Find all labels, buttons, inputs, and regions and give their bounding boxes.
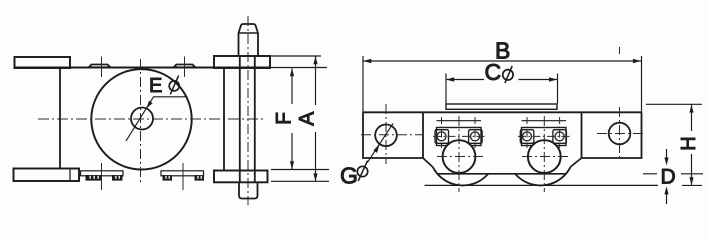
svg-text:E: E [149,75,162,97]
top plate (Cφ disc edge-on) [446,104,557,109]
svg-text:H: H [678,136,700,150]
bolt 2b circle [555,132,564,141]
wheel 2 vertical centerline [543,116,545,192]
wheel 1 flange arc [433,167,489,186]
bolt 2a square [520,130,534,144]
dimension A arrows [313,56,317,64]
pin head seam [239,32,259,34]
svg-text:C: C [485,59,502,85]
wheel 1 vertical centerline [458,116,460,192]
wheel bracket 2 [522,128,567,146]
wheel 1 circle [443,140,476,173]
left lug hole horizontal centerline [361,134,423,136]
wheel circle (side view) [91,69,191,169]
left lug chamfer [423,158,433,167]
bolt 2b square [553,130,567,144]
dimension Cφ text [485,59,514,85]
pin shank sides [239,33,259,56]
wheel vertical centerline [140,59,142,184]
dimension D upper arrow [666,149,668,159]
top tab right centerline [184,57,186,78]
B extension left [362,56,364,112]
dimension Cφ line [446,79,557,81]
pin bottom end [239,183,258,199]
dimension H line [691,105,693,186]
main horizontal centerline [38,118,263,120]
top tab left (hatched block) [87,64,112,68]
B extension right [641,56,643,112]
frame left edge [59,68,61,169]
bolt 2 centerlines [527,117,560,148]
pin centerline [247,16,249,205]
wheel 2 circle [528,140,561,173]
top rail line [15,67,271,69]
Cφ extension left [445,74,447,104]
frame right edge [223,68,225,171]
top tab left centerline [101,57,103,78]
dimension A line [315,56,317,181]
bottom bar right [161,171,204,176]
bolt 1a circle [437,132,446,141]
Cφ extension right [557,74,559,104]
bolt 1a square [435,130,449,144]
bottom bar left [81,171,124,176]
wheel bracket 1 [437,128,482,146]
Eφ label [149,75,179,97]
wheel 2 flange arc [515,167,571,186]
D extension segments [643,173,703,175]
bottom-left plate inner edge [69,169,71,182]
F extension bottom [271,169,329,171]
top rail extension (thin, to dims) [270,67,327,69]
left lug hole vertical centerline [385,104,387,164]
Gφ label [340,161,368,189]
bottom-left plate [14,169,80,182]
Gφ leader arrowhead [373,144,379,153]
right lug hole vertical centerline [619,47,621,158]
H extension top [646,103,702,105]
dimension B arrows [363,59,371,63]
svg-text:A: A [296,112,319,126]
bolt 1 centerlines [442,117,476,148]
dimension F line [291,68,293,169]
top-left plate [15,57,71,68]
bolt 2a circle [523,132,532,141]
bottom bar right hatched blocks [163,175,173,181]
D lower extension right segment [682,184,702,186]
wheel 2 horizontal centerline [522,156,568,158]
bracket 2 tab line [522,120,567,122]
left lug hole Gφ [375,125,397,147]
body top line [363,111,642,113]
bottom bar left hatched blocks [86,175,103,181]
pin shank [240,56,255,183]
bracket 1 tab line [437,120,482,122]
left lug outline [363,112,423,158]
svg-text:D: D [661,166,676,189]
bore circle Eφ [131,108,153,130]
bolt 1b square [469,130,483,144]
dimension D lower arrow [666,193,668,204]
right lug outline [582,112,642,158]
right lug hole [609,123,631,145]
bolt 1b circle [471,132,480,141]
Eφ leader arrowhead [146,101,152,109]
top-right plate [214,56,270,68]
A extension top [270,55,321,57]
bolt 1 horizontal centerline [433,135,485,137]
wheel 1 horizontal centerline [437,156,483,158]
svg-text:G: G [340,163,358,189]
A extension bottom [271,180,329,182]
svg-text:F: F [273,112,296,125]
ground line B [425,184,659,186]
Gφ leader [367,124,393,163]
dimension H arrows [689,105,693,113]
bottom tab right centerline [182,163,184,190]
pin head [239,24,259,33]
right lug hole horizontal centerline [597,133,645,135]
top tab right (hatched block) [172,64,197,68]
frame bottom line A [437,173,566,175]
dimension B line [363,60,641,62]
bolt 2 horizontal centerline [518,135,570,137]
right lug chamfer [571,158,582,167]
bottom-right plate [214,171,268,183]
dimension F arrows [290,68,294,76]
dimension Cφ arrows [446,77,454,81]
Eφ leader [126,97,188,141]
bottom tab left centerline [101,163,103,190]
